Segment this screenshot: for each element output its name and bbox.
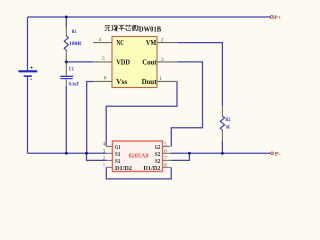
transistor U2 8205A body [112,141,162,172]
resistor R2 [220,106,224,141]
wire R1 top [65,17,67,27]
svg-text:NC: NC [117,39,124,47]
svg-text:P-: P- [275,152,281,158]
U1 pin 3 Cout stub [157,61,177,63]
svg-text:DW01B: DW01B [139,25,161,33]
wire battery negative vertical [27,77,29,153]
U2 pin 8 D1/D2 stub [163,166,171,168]
svg-text:Vss: Vss [116,78,127,86]
U1 pin 4 NC stub [93,42,112,44]
svg-text:5: 5 [102,56,105,62]
junction S2 elbow [188,152,191,155]
wire D1/D2 common drain loop [106,167,171,179]
U2 pin 6 S2 stub [163,152,171,154]
wire VDD link [66,61,93,63]
svg-text:G1: G1 [115,144,121,151]
U1 title CJK strokes [104,25,138,31]
svg-text:R1: R1 [72,30,77,35]
svg-text:S2: S2 [155,158,160,165]
svg-text:R2: R2 [226,118,231,123]
svg-text:1: 1 [159,76,162,82]
wire B- bottom rail [28,152,107,154]
svg-text:S1: S1 [115,151,120,158]
U2 pin 1 D1/D2 stub [106,166,112,168]
wire S2 second pin elbow [170,153,189,160]
svg-text:Dout: Dout [142,78,158,86]
svg-text:S2: S2 [155,151,160,158]
junction R2 bottom rail [221,152,224,155]
svg-text:VM: VM [146,39,156,47]
svg-text:S1: S1 [115,158,120,165]
capacitor C1 [60,63,73,86]
junction C1 bottom rail [65,152,68,155]
svg-text:1K: 1K [226,126,231,131]
wire battery positive vertical [27,17,29,70]
svg-text:P+: P+ [274,15,281,21]
resistor R1 [64,27,68,62]
U2 pin 2 S1 stub [106,159,112,161]
wire Cout to G2 [171,62,202,146]
junction VDD node [65,60,68,63]
U1 pin 6 Vss stub [93,80,112,82]
junction Vss bottom rail [85,152,88,155]
svg-text:Cout: Cout [142,58,157,66]
svg-text:100R: 100R [69,41,82,47]
svg-text:4: 4 [99,37,102,43]
battery BT1 [18,66,37,79]
svg-text:VDD: VDD [116,58,130,66]
U2 pin 4 G1 stub [106,145,112,147]
wire VM to R2 [177,43,222,107]
U1 pin 2 VM stub [157,42,177,44]
svg-text:8205A8: 8205A8 [129,152,149,159]
wire P- rail [170,152,270,154]
U2 pin 5 G2 stub [163,145,171,147]
svg-text:3: 3 [161,57,164,63]
wire Vss to ground rail [87,82,94,154]
op-amp U1 DW01B body [112,37,157,88]
junction top rail R1 [65,16,68,19]
terminal P- [271,152,281,158]
svg-text:G2: G2 [155,144,161,151]
U2 pin 7 S2 stub [163,159,171,161]
svg-text:D1/D2: D1/D2 [115,165,132,172]
svg-text:D1/D2: D1/D2 [143,165,160,172]
U2 pin 3 S1 stub [106,152,112,154]
wire C1 bottom column [65,86,67,153]
wire S1 second pin elbow [87,153,107,160]
svg-text:6: 6 [104,75,107,81]
svg-text:0.1uF: 0.1uF [69,81,80,87]
svg-text:C1: C1 [69,66,74,72]
U1 pin 5 VDD stub [93,61,112,63]
terminal P+ [270,15,281,21]
wire Dout to G1 [106,81,177,146]
U1 pin 1 Dout stub [157,80,177,82]
wire B+ top rail [28,16,271,18]
wire R2 bottom [221,141,223,153]
svg-text:2: 2 [161,37,164,43]
